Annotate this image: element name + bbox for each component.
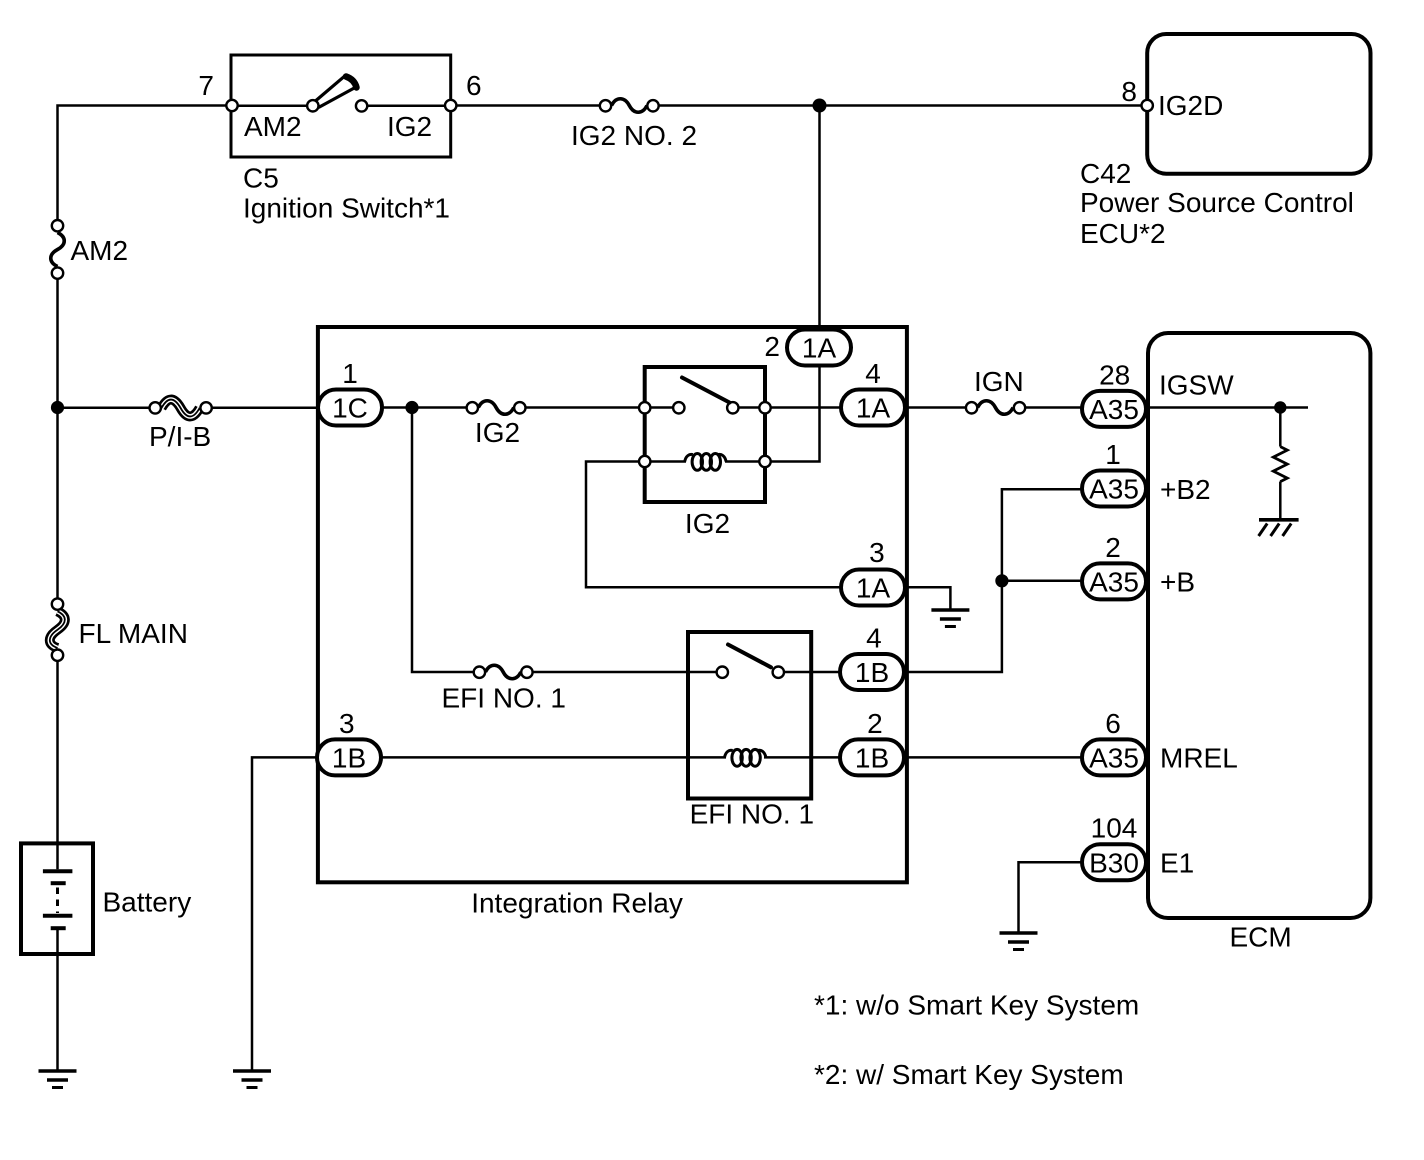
svg-text:1: 1 — [342, 358, 358, 389]
svg-text:104: 104 — [1091, 813, 1138, 844]
wire MREL row 1B pin3 through EFI coil to A35 pin 6 — [382, 756, 726, 759]
wire EFI NO.1 fuse to relay left contact — [533, 671, 724, 674]
connector oval 1B pin 3 — [317, 739, 381, 775]
wire 1A pin2 down to IG2 relay coil — [765, 364, 820, 462]
svg-text:IGN: IGN — [974, 366, 1024, 397]
svg-text:1B: 1B — [855, 743, 889, 774]
svg-text:1A: 1A — [802, 333, 837, 364]
battery box — [21, 843, 93, 954]
wire battery positive riser to ignition switch pin 7 — [58, 106, 233, 220]
connector oval 1A pin 3 — [841, 570, 905, 606]
wire pin 6 to fuse IG2 NO.2 — [451, 104, 600, 107]
pin 6 circle on C5 — [445, 100, 456, 111]
svg-text:ECU*2: ECU*2 — [1080, 218, 1166, 249]
wire inside C5 from contact to pin 6 — [362, 105, 451, 108]
fuse AM2 (vertical) — [51, 220, 65, 279]
node junction dot right of 1C — [405, 401, 418, 414]
IG2 relay contacts and blade — [639, 378, 771, 414]
fuse IG2 (inside integration relay) — [467, 401, 526, 415]
fusible link P/I-B (horizontal) — [150, 400, 212, 417]
ignition switch C5 box — [231, 55, 451, 157]
pin 7 circle on C5 — [226, 100, 237, 111]
ground below integration relay 1B pin 3 — [233, 1071, 271, 1088]
wire IG2 relay right contact to 1A pin 4 — [732, 406, 841, 409]
svg-text:7: 7 — [198, 70, 214, 101]
EFI NO.1 relay contacts and blade — [717, 645, 784, 678]
battery plates — [43, 871, 73, 928]
wire 1B pin 2 to A35 pin 6 — [905, 756, 1082, 759]
chassis ground inside ECM — [1259, 520, 1299, 536]
svg-text:1C: 1C — [332, 393, 368, 424]
wire IG2 coil terminals — [645, 460, 686, 463]
connector oval 1C pin 1 — [318, 390, 382, 426]
ground below battery — [39, 1071, 77, 1088]
wire +B branch to A35 pin 2 — [1002, 580, 1082, 583]
wire FL MAIN link to battery — [56, 662, 59, 870]
svg-text:*2: w/ Smart Key System: *2: w/ Smart Key System — [814, 1059, 1124, 1090]
wire node junction dot at P/I-B branch — [51, 401, 64, 414]
svg-text:Power Source Control: Power Source Control — [1080, 187, 1354, 218]
wire E1 B30 to ground drop — [1019, 862, 1083, 931]
connector oval A35 pin 28 — [1082, 391, 1146, 427]
svg-text:IG2: IG2 — [475, 417, 520, 448]
svg-text:Integration Relay: Integration Relay — [471, 888, 683, 919]
wire resistor bottom lead — [1279, 482, 1282, 520]
svg-text:A35: A35 — [1089, 743, 1139, 774]
wire 1B pin 3 to left ground drop — [252, 757, 317, 1069]
pin 8 circle on C42 — [1142, 100, 1153, 111]
svg-text:IG2 NO. 2: IG2 NO. 2 — [571, 120, 697, 151]
svg-text:28: 28 — [1099, 360, 1130, 391]
wire EFI switch right contact to 1B pin 4 — [777, 671, 841, 674]
svg-text:E1: E1 — [1160, 847, 1194, 878]
wire EFI coil to 1B pin 2 — [764, 756, 841, 759]
wire fuse IGN to ECM A35 pin 28 — [1025, 406, 1082, 409]
wire IGSW inside ECM to pulldown resistor — [1148, 406, 1308, 409]
svg-text:2: 2 — [764, 331, 780, 362]
svg-text:P/I-B: P/I-B — [149, 421, 211, 452]
fuse IG2 NO. 2 — [600, 99, 659, 113]
wire battery negative to ground — [56, 930, 59, 1070]
wire junction down to relay connector 1A pin 2 — [818, 106, 821, 332]
svg-text:*1: w/o Smart Key System: *1: w/o Smart Key System — [814, 990, 1139, 1021]
wire fusible link to relay pin 1C — [212, 407, 320, 410]
fusible link FL MAIN (vertical) — [50, 598, 65, 661]
svg-text:IG2D: IG2D — [1158, 90, 1223, 121]
wire 1A pin 3 to ground — [905, 587, 950, 610]
svg-text:3: 3 — [869, 537, 885, 568]
svg-text:A35: A35 — [1089, 394, 1139, 425]
svg-text:C42: C42 — [1080, 158, 1131, 189]
svg-text:A35: A35 — [1089, 567, 1139, 598]
svg-text:FL MAIN: FL MAIN — [79, 618, 188, 649]
node junction dot above integration relay — [813, 99, 827, 113]
svg-text:AM2: AM2 — [244, 111, 302, 142]
wire between AM2 fuse and FL MAIN link — [56, 280, 59, 599]
wire P/I-B branch to fusible link — [58, 407, 150, 410]
svg-text:+B: +B — [1160, 567, 1195, 598]
svg-text:6: 6 — [1105, 708, 1121, 739]
svg-text:2: 2 — [867, 708, 883, 739]
svg-text:8: 8 — [1121, 76, 1137, 107]
svg-text:EFI NO. 1: EFI NO. 1 — [442, 683, 566, 714]
wire resistor top lead — [1279, 408, 1282, 447]
svg-text:AM2: AM2 — [71, 235, 129, 266]
wire fuse IG2 NO.2 to C42 pin 8 — [659, 104, 1147, 107]
node junction dot at +B branch — [995, 574, 1008, 587]
wire IG2 coil row to 1A pin 3 — [586, 462, 841, 588]
svg-text:4: 4 — [865, 358, 881, 389]
connector oval B30 pin 104 — [1082, 844, 1146, 880]
fuse EFI NO. 1 — [474, 665, 533, 679]
svg-text:1B: 1B — [855, 657, 889, 688]
svg-text:IGSW: IGSW — [1159, 370, 1234, 401]
svg-text:IG2: IG2 — [387, 111, 432, 142]
svg-text:1A: 1A — [856, 393, 891, 424]
power source control ECU C42 box — [1147, 34, 1370, 174]
connector oval 1B pin 2 — [840, 739, 904, 775]
svg-text:C5: C5 — [243, 163, 279, 194]
connector oval A35 pin 1 — [1082, 471, 1146, 507]
connector oval 1A pin 2 — [787, 330, 851, 366]
wire junction down to EFI NO.1 fuse — [412, 408, 474, 673]
ECM box — [1148, 333, 1370, 918]
svg-text:Ignition Switch*1: Ignition Switch*1 — [243, 193, 450, 224]
fuse IGN — [966, 401, 1025, 415]
wire 1C to fuse IG2 — [382, 406, 467, 409]
svg-text:4: 4 — [866, 623, 882, 654]
ground at ECM E1 — [1000, 933, 1038, 950]
svg-text:EFI NO. 1: EFI NO. 1 — [690, 799, 814, 830]
svg-text:6: 6 — [466, 70, 482, 101]
svg-text:2: 2 — [1105, 532, 1121, 563]
svg-text:+B2: +B2 — [1160, 474, 1211, 505]
integration relay box — [318, 327, 907, 882]
resistor inside ECM — [1273, 447, 1287, 482]
node junction dot at resistor top — [1274, 401, 1286, 413]
EFI NO.1 relay contact/coil box — [688, 632, 811, 799]
IG2 relay coil — [639, 454, 771, 471]
connector oval A35 pin 6 — [1082, 739, 1146, 775]
ground at 1A pin 3 — [931, 610, 969, 627]
EFI NO.1 relay coil — [725, 749, 766, 766]
connector oval 1B pin 4 — [840, 654, 904, 690]
svg-text:Battery: Battery — [103, 887, 192, 918]
BOXES — [21, 34, 1371, 954]
IG2 relay contact/coil box — [645, 367, 765, 502]
svg-text:B30: B30 — [1089, 847, 1139, 878]
wire 1B pin 4 to +B2 / +B column — [905, 489, 1082, 672]
connector oval 1A pin 4 — [841, 390, 905, 426]
svg-text:ECM: ECM — [1230, 922, 1292, 953]
svg-text:A35: A35 — [1089, 474, 1139, 505]
svg-text:MREL: MREL — [1160, 743, 1238, 774]
wire inside C5 from pin 7 to switch contact — [232, 104, 313, 107]
wire fuse IG2 to relay left contact — [526, 406, 680, 409]
connector oval A35 pin 2 — [1082, 563, 1146, 599]
svg-text:1: 1 — [1105, 439, 1121, 470]
svg-text:3: 3 — [339, 708, 355, 739]
wire 1A pin4 to fuse IGN — [905, 406, 966, 409]
ignition switch C5 contacts and lever — [307, 76, 367, 112]
svg-text:1B: 1B — [332, 743, 366, 774]
svg-text:IG2: IG2 — [685, 508, 730, 539]
svg-text:1A: 1A — [856, 573, 891, 604]
